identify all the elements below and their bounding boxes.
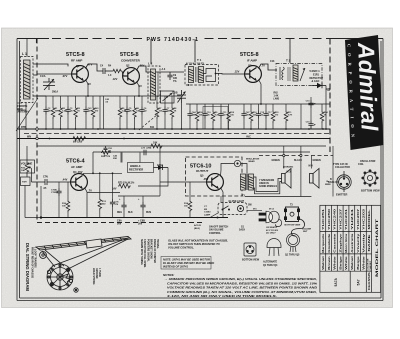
wire Q3 collector to T2 <box>259 64 278 70</box>
svg-text:SHOWN WITH TUNING: SHOWN WITH TUNING <box>140 239 143 265</box>
svg-text:SOME MODELS: SOME MODELS <box>259 185 277 188</box>
svg-text:25K: 25K <box>113 158 117 160</box>
capacitor C1A tuning <box>43 78 55 90</box>
svg-text:AF AMP: AF AMP <box>71 165 82 169</box>
capacitor C16 <box>308 121 313 129</box>
node harness connectors <box>283 154 285 156</box>
svg-text:5TC6-4: 5TC6-4 <box>66 159 86 165</box>
wire: main bus y=129 <box>17 128 330 130</box>
svg-text:Q2: Q2 <box>126 64 130 68</box>
alternate transistor note <box>161 257 211 270</box>
resistor R6 <box>133 107 137 119</box>
svg-text:.45V: .45V <box>203 177 209 181</box>
wire: ground bus y=217.5 <box>41 217 228 219</box>
node open junctions on shield <box>36 128 38 130</box>
svg-text:YHC250: YHC250 <box>327 208 331 230</box>
svg-text:RUN: RUN <box>146 212 151 214</box>
wire tuning gang link diagonal <box>16 98 38 131</box>
diode C702 <box>154 165 169 170</box>
wire switch to plug <box>247 210 262 212</box>
svg-text:Q1 THRU Q4: Q1 THRU Q4 <box>263 264 278 267</box>
resistor R94 <box>320 111 324 123</box>
wire: L1 base drop <box>25 103 27 130</box>
svg-text:& AGC: & AGC <box>312 80 320 83</box>
svg-text:BRACKET SHOW: BRACKET SHOW <box>150 239 153 260</box>
svg-text:AVC: AVC <box>246 136 251 139</box>
svg-text:FRONT REAR OF CHASSIS: FRONT REAR OF CHASSIS <box>31 247 34 278</box>
svg-text:A7 C32 A37 C48 F73: A7 C32 A37 C48 F73 <box>186 62 204 65</box>
svg-text:1.4K: 1.4K <box>274 95 279 98</box>
capacitor C11 <box>218 111 223 119</box>
wire Q5 base <box>160 181 207 183</box>
capacitor C44 <box>187 111 192 119</box>
potentiometer R15 volume control <box>20 146 42 218</box>
svg-text:YHC237: YHC237 <box>338 208 342 230</box>
transformer T2 second IF <box>276 64 322 86</box>
svg-text:M 12: M 12 <box>269 209 275 211</box>
wire T3 secondary to speakers <box>254 177 282 192</box>
svg-text:L 1: L 1 <box>22 52 27 56</box>
wire Q5 emitter <box>221 188 224 218</box>
dial pointer rail <box>36 237 131 251</box>
svg-text:COLLECTOR: COLLECTOR <box>335 166 350 169</box>
main notes paragraph <box>163 273 318 298</box>
svg-text:Gisabelle: Gisabelle <box>327 233 331 253</box>
svg-text:50V: 50V <box>117 223 122 226</box>
wire B+ feed <box>332 146 334 197</box>
lamp M2 dial light <box>218 203 247 215</box>
wire speaker harness dashed <box>259 155 333 157</box>
wire: top dashed chassis line right of title <box>205 38 331 40</box>
wire: left drop to ground bus <box>40 186 42 218</box>
svg-text:RF AMP: RF AMP <box>71 59 82 63</box>
wire L1 top to tank <box>33 64 68 66</box>
wire filter rail <box>118 195 160 197</box>
wire: dashed horizontal shield y=223 <box>37 222 205 224</box>
wire: main bus y=138.5 <box>17 138 330 140</box>
speaker M4 second <box>310 169 320 189</box>
transformer T3 bottom view <box>286 207 299 222</box>
svg-text:RECTIFIER: RECTIFIER <box>129 168 143 172</box>
resistor R36 <box>195 111 199 123</box>
alternate TO-92 package Q1-Q4 <box>267 239 281 256</box>
svg-text:YHC240: YHC240 <box>333 208 337 230</box>
svg-text:YHC251: YHC251 <box>321 208 325 230</box>
capacitor C10 <box>202 111 207 119</box>
resistor R16 bias <box>67 182 69 200</box>
wire driver feed <box>159 146 161 196</box>
svg-text:10K: 10K <box>21 170 25 172</box>
svg-text:1 LOOP TRAVERS: 1 LOOP TRAVERS <box>34 247 37 268</box>
svg-text:Cassette: Cassette <box>333 233 337 253</box>
resistor R4 series <box>112 69 122 73</box>
svg-text:GLOVE LIGHT: GLOVE LIGHT <box>229 201 245 203</box>
resistor R11 <box>284 111 288 123</box>
svg-text:Walnut: Walnut <box>321 256 325 270</box>
svg-text:White: White <box>362 255 366 270</box>
svg-text:VOLUME: VOLUME <box>21 162 33 166</box>
svg-text:5.0627-1: 5.0627-1 <box>310 69 321 73</box>
wire AGC dashed diagonal <box>139 114 158 130</box>
svg-text:5A7: 5A7 <box>357 279 361 285</box>
pointer clip <box>86 239 102 248</box>
idler wheel <box>74 288 78 292</box>
transistor Q4 AF amp <box>71 174 88 191</box>
svg-text:Walnut: Walnut <box>350 256 354 270</box>
svg-text:Q1: Q1 <box>76 64 80 68</box>
svg-text:PWS 714D430-1: PWS 714D430-1 <box>147 37 200 43</box>
wire Q1 collector to C4 <box>86 64 104 71</box>
wire: detector drop <box>325 86 327 130</box>
svg-text:EMITTER: EMITTER <box>336 193 348 197</box>
svg-text:C705A: C705A <box>51 191 58 194</box>
svg-text:.07V: .07V <box>62 74 68 78</box>
drum hub lugs <box>66 268 69 271</box>
svg-text:DI. BLNKY AND 2N5 MAY MAY BE U: DI. BLNKY AND 2N5 MAY MAY BE USED <box>163 261 214 265</box>
svg-text:5A5X: 5A5X <box>239 229 245 232</box>
wire: L2 shield to chassis <box>150 39 152 64</box>
wire T1 secondary to Q3 base <box>216 73 246 76</box>
insulation bead <box>234 160 240 166</box>
svg-text:(.4W): (.4W) <box>274 98 280 101</box>
svg-text:TWT: TWT <box>22 182 27 184</box>
thermistor bottom view icon <box>244 243 256 256</box>
svg-text:92B30-3: 92B30-3 <box>130 164 141 168</box>
svg-text:TRAVEL.: TRAVEL. <box>156 239 159 249</box>
svg-text:BLK: BLK <box>128 212 133 214</box>
svg-text:Q4 .45V: Q4 .45V <box>73 170 83 174</box>
capacitor C9 padder <box>167 72 172 80</box>
svg-text:Moon Glow: Moon Glow <box>344 234 348 253</box>
svg-text:I/W 1500: I/W 1500 <box>73 142 83 144</box>
svg-text:1K: 1K <box>77 111 80 113</box>
resistor R9 <box>211 111 215 123</box>
svg-text:C1/A: C1/A <box>40 75 46 78</box>
svg-text:Brown: Brown <box>327 256 331 270</box>
wire antenna ground stub <box>17 109 26 111</box>
svg-text:INSTEAD OF 2N741: INSTEAD OF 2N741 <box>163 265 188 269</box>
wire: C1B down <box>181 103 183 129</box>
svg-text:White: White <box>333 255 337 270</box>
trimmer C10 box <box>161 91 175 103</box>
resistor R3 <box>74 107 78 119</box>
wire: lower rail y=148.5 <box>37 145 326 147</box>
svg-text:5TC5-8: 5TC5-8 <box>120 52 139 58</box>
svg-text:(DURANT): (DURANT) <box>283 166 293 169</box>
svg-text:BOTTOM VIEW: BOTTOM VIEW <box>361 189 380 193</box>
wire Q1 base <box>37 73 72 75</box>
svg-text:YHC231: YHC231 <box>344 208 348 230</box>
svg-text:AC ONLY: AC ONLY <box>265 233 276 235</box>
capacitor C17 <box>263 111 268 119</box>
svg-text:AROUND: AROUND <box>95 268 98 279</box>
svg-text:C13: C13 <box>270 60 275 63</box>
wire: RF stage rail y=96 <box>37 95 182 97</box>
resistor R73 <box>118 184 131 188</box>
svg-text:HOLD STRING: HOLD STRING <box>92 268 95 285</box>
svg-text:M 3: M 3 <box>287 170 292 173</box>
capacitor C15 <box>308 100 313 108</box>
svg-text:C1/B: C1/B <box>172 92 178 95</box>
svg-text:B11: B11 <box>150 126 155 129</box>
svg-text:5TC5-8: 5TC5-8 <box>66 52 85 58</box>
svg-text:Marquesite: Marquesite <box>321 233 325 253</box>
svg-text:BOTTOM VIEW: BOTTOM VIEW <box>285 225 302 227</box>
svg-text:RANGE OF POINTER: RANGE OF POINTER <box>153 239 156 263</box>
svg-text:(2W): (2W) <box>147 148 152 150</box>
wire: dashed AGC line y=133.5 <box>24 133 330 135</box>
resistor R14 base <box>189 182 191 200</box>
svg-text:BEAD: BEAD <box>249 160 256 163</box>
dial stringing diagram <box>25 237 159 293</box>
type C47-06 transistor bottom view icon <box>328 163 351 197</box>
svg-text:C7N: C7N <box>43 176 48 179</box>
wire speaker return <box>245 196 311 198</box>
svg-text:JAV: JAV <box>112 188 117 191</box>
TO-1 package Q1 thru Q5 <box>287 234 300 253</box>
svg-text:30V: 30V <box>138 223 143 226</box>
capacitor C7N coupling <box>45 179 71 185</box>
output module dashed box <box>186 157 243 196</box>
svg-text:R73 GALW,1%: R73 GALW,1% <box>118 182 135 185</box>
svg-text:NAME: NAME <box>367 234 371 251</box>
capacitor C2 <box>43 107 48 115</box>
wire volume wiper to C7N <box>32 181 46 183</box>
speaker M3 <box>282 169 292 189</box>
wire: dashed vertical shield x=330 <box>329 39 331 153</box>
svg-text:CAPACITOR FULL OPEN.: CAPACITOR FULL OPEN. <box>143 239 146 268</box>
node junction dots <box>25 95 327 130</box>
transistor Q1 RF amp <box>72 66 89 83</box>
svg-text:4-120, NO AND NR ONLY USED IN: 4-120, NO AND NR ONLY USED IN TONE MODEL… <box>165 294 277 298</box>
resistor R7 <box>155 107 159 119</box>
wire Q4 collector rail <box>83 173 85 175</box>
inductor L2 oscillator coil <box>148 66 160 103</box>
svg-text:TK: TK <box>104 156 107 158</box>
svg-text:ROD: ROD <box>18 109 23 111</box>
svg-text:Australia: Australia <box>350 233 354 253</box>
svg-text:1K: 1K <box>324 115 327 117</box>
tuning drum <box>47 264 73 290</box>
wire: right border <box>382 39 384 301</box>
svg-text:OUTPUT: OUTPUT <box>196 169 209 173</box>
front pulley <box>40 252 47 259</box>
wire Q5 collector to T3 via bead <box>221 164 235 177</box>
svg-text:1 TURN: 1 TURN <box>98 268 101 277</box>
wire T3 cord <box>292 219 305 236</box>
wire B+ drop to collector rail <box>92 152 94 173</box>
svg-text:4.7K: 4.7K <box>288 114 293 117</box>
svg-text:60 CYCLES: 60 CYCLES <box>266 230 278 232</box>
capacitor C8B filter <box>142 196 144 202</box>
svg-text:COIL: COIL <box>358 163 364 166</box>
wire: lower rail y=152.5 <box>93 151 310 153</box>
capacitor C1B tuning <box>177 90 186 103</box>
svg-text:CONVERTER: CONVERTER <box>121 59 141 63</box>
resistor R5 <box>118 107 122 119</box>
label 7 speakers note <box>259 179 277 188</box>
svg-text:(BLK): (BLK) <box>194 228 200 230</box>
wire feedback y=186 <box>87 192 120 194</box>
svg-text:LAMP: LAMP <box>204 213 211 216</box>
svg-text:T 1: T 1 <box>197 58 202 62</box>
capacitor C4 coupling <box>103 68 112 74</box>
svg-text:GREEN: GREEN <box>313 160 322 162</box>
capacitor C76 <box>112 173 114 199</box>
svg-text:CABINET: CABINET <box>369 260 372 270</box>
svg-text:Vanity: Vanity <box>362 232 366 252</box>
transformer T1 first IF <box>185 65 219 86</box>
capacitor C5 <box>124 107 129 115</box>
wire harness drops <box>283 146 285 154</box>
wire: Q2 emitter drop <box>137 82 140 97</box>
wire Q2 collector to T1 <box>137 66 185 72</box>
wire: Q1 emitter drop <box>86 80 89 97</box>
capacitor C7 <box>162 107 167 115</box>
svg-text:REG: REG <box>117 212 122 214</box>
resistor R16 <box>249 111 253 123</box>
svg-text:YHC207: YHC207 <box>356 208 360 230</box>
svg-text:GREEN: GREEN <box>272 160 281 162</box>
svg-text:WN: WN <box>27 136 31 139</box>
svg-text:NUT: NUT <box>303 231 308 233</box>
svg-text:M 4: M 4 <box>309 165 314 168</box>
svg-text:.12V: .12V <box>234 70 240 74</box>
wire: IF stage rail y=104 <box>186 103 330 105</box>
svg-text:Admiral: Admiral <box>353 41 383 132</box>
wire: T2 shield to chassis <box>289 39 291 63</box>
svg-text:COLOR OR: COLOR OR <box>367 258 369 270</box>
capacitor C12 <box>256 111 261 119</box>
transistor Q3 IF amp <box>245 66 262 83</box>
svg-text:Q1 THRU Q5: Q1 THRU Q5 <box>285 254 300 257</box>
bias network group box <box>203 107 228 130</box>
svg-text:Beige: Beige <box>338 255 342 270</box>
svg-text:Beige: Beige <box>356 255 360 270</box>
resistor R2 <box>59 107 63 119</box>
spring on drum <box>60 274 70 282</box>
svg-text:Zephyr: Zephyr <box>338 234 342 253</box>
svg-text:Q3: Q3 <box>248 64 252 68</box>
oscillator coil bottom view icon <box>358 160 380 193</box>
capacitor C47 <box>241 111 246 119</box>
svg-text:R62: R62 <box>274 93 279 95</box>
svg-text:L 2: L 2 <box>148 62 153 66</box>
svg-text:.66V: .66V <box>139 64 145 68</box>
resistor R41 <box>91 107 95 119</box>
connector P1 AC interlock plug <box>259 211 282 226</box>
wire L1 secondary taps <box>33 74 37 76</box>
transistor Q5 output <box>207 174 224 191</box>
resistor R91 <box>271 111 275 123</box>
svg-text:VOLUME CONTROL.: VOLUME CONTROL. <box>168 246 195 250</box>
svg-text:AC125: AC125 <box>194 224 202 227</box>
svg-text:Q5: Q5 <box>200 174 204 178</box>
model chart table <box>320 205 381 292</box>
wire: Q3 emitter drop <box>259 80 262 105</box>
capacitor C8A filter <box>123 196 125 202</box>
svg-text:5A7A: 5A7A <box>334 277 338 286</box>
wire rail to rectifier <box>121 153 123 163</box>
svg-text:NOTE: 2N741 MAY BE USED MOTOR: NOTE: 2N741 MAY BE USED MOTOR <box>163 258 210 262</box>
svg-text:C1083: C1083 <box>204 212 211 214</box>
capacitor C705 electrolytic <box>58 182 60 188</box>
svg-text:Vivacity: Vivacity <box>356 233 360 253</box>
wire lamp leads <box>210 213 218 218</box>
component ladder upper section <box>43 90 331 129</box>
svg-text:POINTERS ON DIAL: POINTERS ON DIAL <box>146 239 149 262</box>
svg-text:YH211: YH211 <box>350 208 354 230</box>
wire: bottom border <box>17 300 383 302</box>
svg-text:2N1A: 2N1A <box>52 91 58 94</box>
svg-text:WIRE: WIRE <box>325 184 331 186</box>
svg-text:.7V: .7V <box>88 189 92 193</box>
wire Q4 emitter down <box>85 188 88 218</box>
svg-text:5TC5-8: 5TC5-8 <box>240 52 259 58</box>
wire to Q2 base <box>122 71 123 76</box>
wire: left border <box>16 39 18 301</box>
wire: top solid border segment <box>330 38 383 40</box>
Admiral Corporation logo <box>345 35 384 150</box>
svg-text:T 2: T 2 <box>286 59 291 63</box>
chassis mounting note <box>168 239 228 250</box>
svg-text:12V: 12V <box>327 90 331 92</box>
svg-text:INSULATION: INSULATION <box>246 158 260 161</box>
svg-text:BOTTOM VIEW: BOTTOM VIEW <box>242 259 260 262</box>
resistor R42 10K series <box>150 144 163 148</box>
resistor R1 <box>51 107 55 119</box>
svg-text:IF AMP: IF AMP <box>247 59 257 63</box>
wire rectifier drop <box>138 168 168 187</box>
dial string runs <box>66 239 128 270</box>
svg-text:10K: 10K <box>153 141 158 144</box>
wire: top dashed chassis line left of title <box>17 38 49 40</box>
inductor L1 loopstick antenna <box>21 57 34 103</box>
svg-text:MODEL CHART: MODEL CHART <box>375 219 379 277</box>
transistor Q2 converter <box>123 68 140 85</box>
svg-text:A.3: A.3 <box>162 68 166 71</box>
svg-text:MODEL: MODEL <box>367 209 371 229</box>
svg-text:1K: 1K <box>174 111 177 113</box>
svg-text:.44V: .44V <box>62 178 68 182</box>
resistor R10 <box>227 111 231 123</box>
svg-text:YHC203: YHC203 <box>362 208 366 230</box>
svg-text:GLASS IN (L NOT MOUNTED IN OUT: GLASS IN (L NOT MOUNTED IN OUT CHASSIS, <box>168 239 228 243</box>
capacitor C3 <box>65 107 70 115</box>
resistor R8 <box>170 107 174 119</box>
svg-text:ANTENNA: ANTENNA <box>18 111 30 114</box>
wire: T1 shield to chassis <box>194 39 196 62</box>
svg-text:DIAL STRING DIAGRAM: DIAL STRING DIAGRAM <box>25 243 30 291</box>
svg-text:.12V: .12V <box>112 77 118 81</box>
svg-text:White: White <box>344 255 348 270</box>
capacitor C41 <box>83 107 88 115</box>
svg-text:CONTROL: CONTROL <box>209 232 221 235</box>
wire: dashed vertical shield x=37 <box>36 39 38 223</box>
svg-text:ON WHITE: ON WHITE <box>266 227 277 229</box>
svg-text:ON-OFF SWITCH IS THEN MOUNTED: ON-OFF SWITCH IS THEN MOUNTED TO <box>168 242 221 246</box>
capacitor C6 <box>139 107 144 115</box>
resistor R13 <box>98 198 102 210</box>
svg-text:CHASSIS: CHASSIS <box>367 272 371 290</box>
wire L1 shield to chassis <box>26 39 28 57</box>
transformer T3 output <box>241 174 254 190</box>
